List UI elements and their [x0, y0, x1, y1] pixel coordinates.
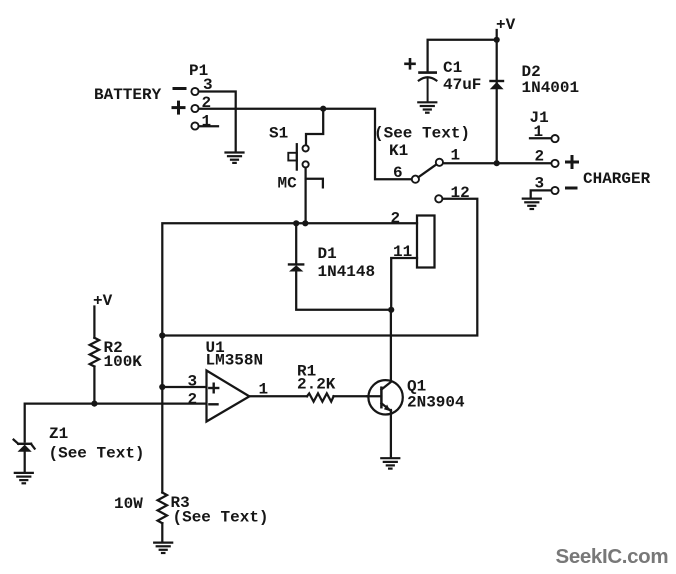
wire loop top / K1 pin2	[162, 223, 417, 335]
svg-text:SeekIC.com: SeekIC.com	[556, 545, 669, 568]
svg-text:10W: 10W	[114, 495, 143, 513]
wire S1 to D1 rail	[304, 168, 306, 224]
svg-text:Z1: Z1	[49, 425, 68, 443]
J1 pin 1 terminal	[551, 135, 558, 142]
svg-text:2N3904: 2N3904	[407, 394, 465, 412]
diode D2	[490, 81, 504, 89]
Z1 ref label	[49, 425, 68, 443]
ground C1	[418, 102, 436, 112]
J1 pin 3 label	[535, 175, 545, 193]
svg-text:+V: +V	[93, 292, 113, 310]
C1 ref label	[443, 59, 462, 77]
Z1 see-text label	[49, 445, 145, 463]
relay K1 coil	[417, 216, 435, 268]
wire R1 to Q1 base	[334, 395, 381, 397]
plus sign BATTERY	[173, 102, 184, 113]
R2 value label	[104, 353, 143, 371]
wire +V to R2	[93, 307, 95, 338]
+V label top	[496, 16, 516, 34]
J1 pin 2 terminal	[551, 160, 558, 167]
ground Q1	[381, 458, 399, 468]
svg-text:6: 6	[393, 164, 403, 182]
svg-text:(See Text): (See Text)	[49, 445, 145, 463]
wire D2 branch	[496, 40, 498, 163]
wire Z1 to ground	[24, 451, 26, 472]
ground Z1	[15, 473, 33, 483]
node S1 on D1 rail	[302, 220, 308, 226]
wire K1 pin1 to J1 pin2	[443, 162, 551, 164]
svg-text:1N4148: 1N4148	[318, 263, 376, 281]
svg-text:D1: D1	[318, 245, 337, 263]
U1 value label	[206, 352, 264, 370]
wire loop left continues down	[161, 336, 163, 493]
K1 coil pin 11 label	[393, 243, 412, 261]
svg-text:MC: MC	[278, 175, 298, 193]
K1 pin 12 label	[451, 184, 470, 202]
ground J1	[523, 199, 541, 209]
P1 pin 2 terminal	[191, 105, 198, 112]
wire U1 output to R1	[249, 395, 307, 397]
K1 pin 6 label	[393, 164, 403, 182]
wire K1 pin12 to loop right side	[162, 199, 477, 336]
svg-text:2: 2	[188, 391, 198, 409]
wire P1 pin3 to ground vertical	[199, 92, 236, 152]
BATTERY label	[94, 86, 162, 104]
wire J1 pin1 stub	[530, 137, 551, 139]
wire battery plus rail	[199, 109, 412, 180]
node loop left / bottom	[159, 332, 165, 338]
wire Q1 emitter to ground	[390, 410, 392, 457]
wire C1 top	[428, 40, 497, 72]
P1 pin 1 terminal	[191, 122, 198, 129]
relay K1 see-text label	[374, 125, 470, 143]
P1 pin 3 label	[203, 76, 213, 94]
svg-text:2: 2	[391, 210, 401, 228]
R3 see-text label	[173, 509, 269, 527]
zener Z1	[14, 440, 35, 452]
minus sign CHARGER	[567, 187, 577, 190]
resistor R1	[307, 393, 334, 401]
transistor Q1	[367, 380, 403, 414]
wire K1 pin11 down	[391, 258, 417, 310]
wire P1 pin1 stub	[199, 125, 218, 127]
plus sign CHARGER	[567, 157, 578, 168]
D2 ref label	[522, 63, 541, 81]
op-amp U1 ref label	[206, 339, 225, 357]
node +V / C1 junction	[494, 37, 500, 43]
K1 coil pin 2 label	[391, 210, 401, 228]
+V label left	[93, 292, 113, 310]
S1 pushbutton plunger	[288, 144, 297, 169]
wire S1 lower hook	[306, 179, 323, 188]
U1 pin 3 label	[188, 373, 198, 391]
wire D1 branch lower	[296, 271, 391, 310]
wire C1 to ground	[427, 79, 429, 101]
K1 pin 1 label	[451, 147, 461, 165]
wire D1 branch upper	[295, 223, 297, 263]
Q1 ref label	[407, 378, 426, 396]
U1 minus input mark	[209, 403, 217, 405]
S1 lower contact	[303, 161, 309, 167]
Q1 value label	[407, 394, 465, 412]
node battery plus / S1 branch	[320, 106, 326, 112]
U1 output pin 1 label	[259, 381, 269, 399]
svg-text:2: 2	[535, 148, 545, 166]
svg-text:CHARGER: CHARGER	[583, 170, 651, 188]
K1 pin 12 contact	[435, 195, 442, 202]
svg-text:+V: +V	[496, 16, 516, 34]
wire S1 upper hook	[306, 109, 323, 145]
svg-text:BATTERY: BATTERY	[94, 86, 162, 104]
svg-text:LM358N: LM358N	[206, 352, 264, 370]
svg-text:(See Text): (See Text)	[173, 509, 269, 527]
svg-text:K1: K1	[389, 142, 408, 160]
wire R3 to ground	[161, 523, 163, 541]
ground R3	[154, 543, 172, 553]
P1 pin 2 label	[202, 94, 212, 112]
node D1 / collector junction	[388, 307, 394, 313]
minus sign BATTERY	[174, 87, 185, 90]
CHARGER label	[583, 170, 651, 188]
connector P1 label	[189, 62, 208, 80]
wire collector drop	[390, 310, 392, 384]
K1 pin 6 contact	[412, 176, 419, 183]
capacitor C1	[419, 73, 437, 81]
svg-text:(See Text): (See Text)	[374, 125, 470, 143]
10W label	[114, 495, 143, 513]
R1 ref label	[297, 363, 316, 381]
P1 pin 1 label	[202, 113, 212, 131]
D2 value label	[522, 79, 580, 97]
node D2 / charger junction	[494, 160, 500, 166]
P1 pin 3 terminal	[191, 88, 198, 95]
K1 ref label	[389, 142, 408, 160]
node R2 / pin2 rail	[91, 401, 97, 407]
wire +V stub	[496, 30, 498, 40]
capacitor C1 plus sign	[406, 59, 415, 68]
switch S1 label	[269, 125, 288, 143]
svg-text:2.2K: 2.2K	[297, 376, 336, 394]
svg-text:1: 1	[202, 113, 212, 131]
S1 upper contact	[303, 145, 309, 151]
wire pin 3 input	[162, 386, 206, 388]
U1 plus input mark	[209, 384, 218, 393]
ground P1	[226, 153, 244, 163]
connector J1 label	[530, 109, 549, 127]
wire R2 to inverting rail	[93, 367, 95, 404]
svg-text:100K: 100K	[104, 353, 143, 371]
node pin3 tap	[159, 384, 165, 390]
R2 ref label	[104, 339, 123, 357]
MC label	[278, 175, 298, 193]
J1 pin 3 terminal	[551, 187, 558, 194]
svg-text:1: 1	[451, 147, 461, 165]
node D1 top	[293, 220, 299, 226]
svg-text:S1: S1	[269, 125, 288, 143]
K1 moving arm	[418, 164, 436, 177]
svg-text:47uF: 47uF	[443, 76, 481, 94]
wire pin 2 input rail	[25, 404, 207, 442]
svg-text:C1: C1	[443, 59, 462, 77]
resistor R3	[158, 493, 167, 524]
D1 value label	[318, 263, 376, 281]
svg-text:1N4001: 1N4001	[522, 79, 580, 97]
U1 pin 2 label	[188, 391, 198, 409]
D1 ref label	[318, 245, 337, 263]
J1 pin 2 label	[535, 148, 545, 166]
R3 ref label	[171, 494, 190, 512]
diode D1	[289, 264, 303, 271]
resistor R2	[90, 338, 99, 367]
J1 pin 1 label	[534, 123, 544, 141]
wire J1 pin3 to ground	[531, 190, 552, 197]
R1 value label	[297, 376, 336, 394]
C1 value label	[443, 76, 481, 94]
K1 pin 1 contact	[436, 159, 443, 166]
op-amp U1	[207, 371, 250, 422]
